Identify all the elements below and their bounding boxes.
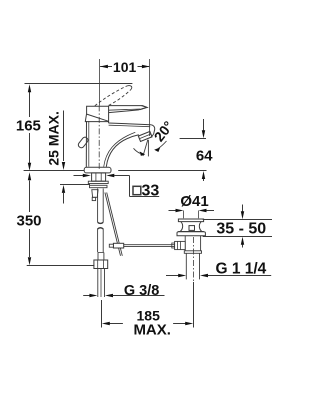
- aerator: [138, 131, 152, 141]
- counter reference line right: [118, 170, 206, 172]
- dimension 185 extension lines: [101, 300, 103, 328]
- svg-text:64: 64: [196, 147, 213, 164]
- dimension 64 top extension: [180, 138, 206, 140]
- handle knob lower left: [77, 136, 89, 149]
- dimension Ø41: [169, 209, 215, 219]
- svg-text:33: 33: [142, 182, 160, 199]
- dimension 25 MAX arrows: [62, 111, 65, 204]
- dimension 165 top extension line: [25, 83, 133, 85]
- svg-text:165: 165: [16, 118, 41, 135]
- rod clamp: [113, 243, 123, 248]
- counter reference line left: [24, 170, 84, 172]
- drain flange: [177, 232, 205, 236]
- 350 connector line: [27, 265, 95, 267]
- svg-text:G 3/8: G 3/8: [124, 283, 159, 299]
- svg-text:Ø41: Ø41: [180, 193, 208, 210]
- washer 1: [88, 181, 108, 183]
- pop-up horizontal rod: [109, 244, 174, 246]
- drain side port: [175, 241, 186, 249]
- dimension 165: [28, 84, 31, 171]
- dimension square-33 leader: [74, 174, 160, 197]
- faucet cap parting line: [87, 114, 109, 121]
- drain centerline: [193, 237, 195, 281]
- drain upper tube: [184, 236, 186, 251]
- faucet cap: [85, 106, 108, 121]
- G 3/8 leader arrows: [83, 294, 164, 297]
- dimension 35-50 lines: [203, 219, 272, 221]
- drain nut band: [184, 251, 201, 254]
- drain tailpipe: [185, 253, 187, 279]
- dimension 185: [102, 322, 193, 325]
- svg-text:MAX.: MAX.: [133, 322, 171, 339]
- supply hose: [97, 189, 99, 223]
- lever tip wedge: [140, 106, 147, 110]
- 20 degree indicator legs: [147, 140, 149, 157]
- faucet lever solid: [109, 106, 147, 113]
- faucet base flange: [84, 167, 111, 173]
- washer 2: [90, 185, 108, 187]
- dimension 101 extension right: [149, 59, 151, 136]
- 20 degree arc and arrows: [134, 148, 141, 153]
- hose tails: [97, 269, 99, 298]
- faucet shank nut: [92, 173, 106, 181]
- pop-up rod diagonal: [105, 193, 121, 256]
- G 1 1/4 leader arrows: [166, 274, 271, 277]
- faucet spout: [108, 122, 110, 124]
- svg-text:35 - 50: 35 - 50: [216, 220, 266, 237]
- label square 33: [133, 186, 141, 194]
- faucet lever dashed raised: [95, 86, 132, 106]
- faucet spout underside curve: [106, 135, 139, 167]
- dimension 101: [100, 65, 150, 68]
- svg-text:101: 101: [113, 59, 137, 75]
- faucet centerline: [99, 59, 101, 105]
- counter bottom line (25 max): [60, 184, 90, 186]
- dimension 350: [28, 172, 31, 265]
- hose nut: [94, 260, 108, 269]
- supply connector: [92, 190, 98, 198]
- svg-text:25 MAX.: 25 MAX.: [45, 111, 61, 165]
- dimension 64 arrows: [202, 119, 205, 181]
- drain cap: [178, 219, 203, 222]
- faucet body: [85, 121, 87, 167]
- svg-text:350: 350: [16, 212, 41, 229]
- dimension 35-50 arrows: [241, 205, 244, 248]
